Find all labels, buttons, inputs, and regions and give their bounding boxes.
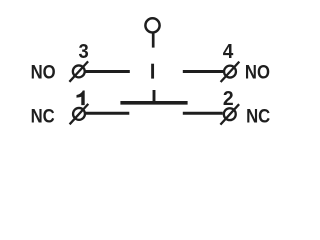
svg-text:2: 2 [223,88,234,110]
wire from terminal 1 (NC left) [86,112,130,115]
actuator stem [152,33,155,47]
svg-text:NC: NC [246,105,270,126]
moving contact bridge bar [120,101,187,105]
wire from terminal 3 (NO left) [86,70,130,73]
pin number 1 [77,91,85,106]
wire to terminal 2 (NC right) [183,112,223,115]
terminal 1 [70,104,89,124]
svg-text:NC: NC [31,105,55,126]
svg-text:NO: NO [245,61,270,82]
actuator dashed link dash 1 [151,64,154,79]
svg-text:4: 4 [223,40,234,63]
actuator dashed link dash 2 [153,90,156,102]
svg-text:3: 3 [79,41,89,63]
terminal 2 [220,104,239,124]
svg-text:NO: NO [31,62,56,83]
pushbutton actuator knob [145,18,159,32]
wire to terminal 4 (NO right) [183,70,224,73]
terminal 4 [221,62,240,82]
terminal 3 [69,61,88,81]
